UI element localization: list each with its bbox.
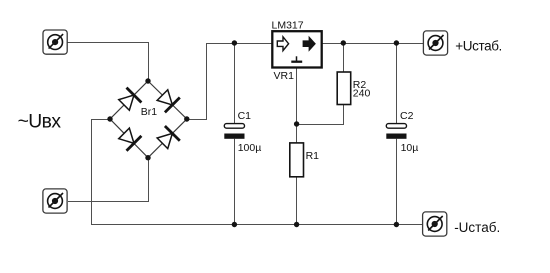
capacitor C2: [386, 124, 406, 139]
wire R1 bottom to rail: [296, 177, 298, 225]
terminal T3 (+ output): [423, 31, 447, 55]
node C1 bottom junction: [232, 222, 237, 227]
op-amp U1: LM317 regulator VR1 body: [272, 31, 321, 67]
wire bridge right node to LM317 input: [187, 44, 272, 120]
node bridge right: [184, 116, 189, 121]
wire LM317 ADJ pin to R1 top: [296, 68, 298, 143]
svg-text:240: 240: [353, 88, 371, 100]
node C2 top junction: [394, 40, 399, 45]
resistor R2: [337, 72, 351, 105]
node bridge top: [145, 78, 150, 83]
wire R2 top: [343, 43, 345, 72]
terminal T2 (AC input bottom): [43, 189, 67, 213]
svg-text:LM317: LM317: [272, 20, 304, 32]
node ADJ junction: [294, 121, 299, 126]
svg-text:10µ: 10µ: [401, 142, 419, 154]
node R2 top junction: [341, 40, 346, 45]
wire LM317 output to T3: [322, 43, 424, 45]
svg-text:R1: R1: [306, 150, 320, 162]
resistor R1: [290, 143, 304, 177]
wire C2 bottom: [396, 139, 398, 225]
diode D1 (left node to top node): [119, 88, 142, 111]
node bridge left: [107, 116, 112, 121]
svg-text:+Uстаб.: +Uстаб.: [455, 39, 502, 54]
svg-text:-Uстаб.: -Uстаб.: [454, 220, 500, 235]
wire C1 top: [234, 43, 236, 124]
wire T1 to bridge top node: [67, 43, 148, 82]
svg-text:Br1: Br1: [141, 106, 158, 118]
wire C1 bottom: [234, 139, 236, 225]
wire T2 to bridge bottom node: [68, 158, 149, 202]
diode D4 (bottom node to right node): [157, 126, 180, 149]
svg-text:C1: C1: [238, 110, 252, 122]
wire bottom rail to T4: [91, 224, 423, 226]
diode D2 (top node to right node): [157, 90, 180, 113]
svg-text:C2: C2: [400, 110, 414, 122]
wire C2 top: [396, 43, 398, 124]
wire bridge left node to bottom rail: [92, 120, 111, 226]
terminal T1 (AC input top): [43, 30, 67, 54]
bridge rectifier Br1 diamond: [110, 81, 187, 158]
svg-text:~Uвх: ~Uвх: [18, 112, 62, 133]
svg-text:VR1: VR1: [274, 70, 295, 82]
node C2 bottom junction: [394, 222, 399, 227]
node bridge bottom: [145, 155, 150, 160]
node C1 top junction: [232, 40, 237, 45]
diode D3 (left node to bottom node): [119, 128, 142, 151]
capacitor C1: [224, 124, 244, 139]
wire R2 bottom to ADJ node: [297, 105, 344, 125]
svg-text:100µ: 100µ: [238, 142, 262, 154]
terminal T4 (- output): [423, 212, 447, 236]
node R1 bottom junction: [294, 222, 299, 227]
